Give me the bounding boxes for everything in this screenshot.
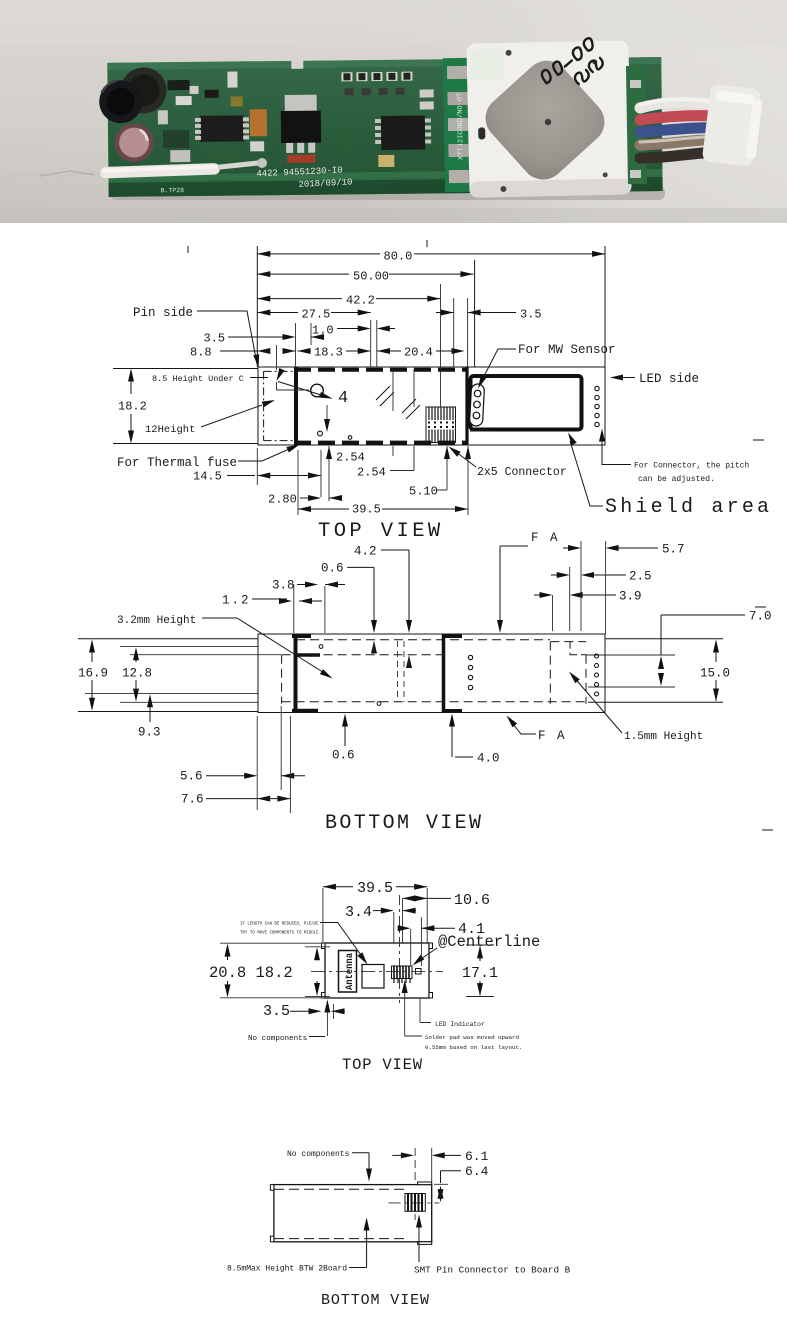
resistor row bbox=[341, 72, 412, 96]
svg-text:SMT Pin Connector to Board B: SMT Pin Connector to Board B bbox=[414, 1265, 571, 1276]
stray mark bbox=[753, 439, 764, 441]
svg-text:1.5mm Height: 1.5mm Height bbox=[624, 731, 703, 743]
svg-text:TRY TO MOVE COMPONENTS TO MIDD: TRY TO MOVE COMPONENTS TO MIDDLE. bbox=[240, 932, 321, 936]
svg-text:18.3: 18.3 bbox=[314, 346, 343, 360]
thermal fuse wire bbox=[0, 172, 110, 177]
small holes bbox=[318, 431, 323, 436]
svg-text:Pin side: Pin side bbox=[133, 306, 193, 320]
screw/holes bbox=[506, 50, 512, 56]
handwriting bbox=[536, 37, 607, 98]
svg-text:6.4: 6.4 bbox=[465, 1164, 489, 1179]
bold module edge vertical bbox=[465, 367, 468, 445]
PCB board bbox=[99, 53, 663, 197]
svg-text:F A: F A bbox=[531, 531, 560, 545]
connector dashed verticals bbox=[397, 641, 399, 702]
photo background bbox=[0, 0, 787, 223]
svg-text:12.8: 12.8 bbox=[122, 667, 152, 681]
capacitor pink bbox=[114, 123, 153, 162]
svg-text:0.55mm based on last layout.: 0.55mm based on last layout. bbox=[425, 1044, 522, 1051]
svg-text:10.6: 10.6 bbox=[454, 892, 490, 909]
svg-text:50.00: 50.00 bbox=[353, 270, 389, 284]
hole dia 4 label bbox=[311, 384, 324, 397]
pads near module bbox=[420, 89, 434, 109]
Antenna block bbox=[339, 951, 357, 993]
svg-text:Shield area: Shield area bbox=[605, 496, 772, 519]
svg-text:14.5: 14.5 bbox=[193, 470, 222, 484]
right ext verticals bbox=[552, 595, 554, 631]
shield area bold rect bbox=[471, 376, 582, 430]
capacitor black front bbox=[99, 80, 142, 123]
svg-text:42.2: 42.2 bbox=[346, 294, 375, 308]
svg-text:1.2: 1.2 bbox=[222, 594, 251, 608]
svg-text:F A: F A bbox=[538, 729, 567, 743]
left body lines bbox=[113, 369, 258, 444]
wires bbox=[640, 99, 720, 158]
svg-text:For Thermal fuse: For Thermal fuse bbox=[117, 456, 237, 470]
pin-side dash-dot box bbox=[264, 370, 294, 372]
connector white bbox=[702, 83, 764, 167]
svg-text:27.5: 27.5 bbox=[302, 308, 331, 322]
svg-text:For Connector, the pitch: For Connector, the pitch bbox=[634, 462, 749, 471]
square component bbox=[362, 965, 384, 989]
left ext lines bbox=[85, 647, 281, 703]
svg-text:LED Indicator: LED Indicator bbox=[435, 1021, 485, 1028]
svg-text:3.8: 3.8 bbox=[272, 579, 295, 593]
bold shield fence vertical + stubs bbox=[294, 634, 298, 713]
interior dashed outline bbox=[281, 655, 283, 704]
svg-text:0.6: 0.6 bbox=[332, 749, 355, 763]
svg-text:5.10: 5.10 bbox=[409, 485, 438, 499]
svg-text:BOTTOM VIEW: BOTTOM VIEW bbox=[325, 812, 483, 835]
svg-text:5.7: 5.7 bbox=[662, 543, 685, 557]
white sensor module bbox=[466, 36, 631, 197]
module board rect with corner tabs bbox=[325, 943, 429, 998]
right body lines bbox=[588, 639, 723, 703]
dim 3.5 right bbox=[436, 312, 516, 314]
2x5 connector block bbox=[426, 407, 456, 443]
left body lines bbox=[78, 639, 258, 712]
inner dashed lines bbox=[274, 1188, 409, 1190]
svg-text:LED side: LED side bbox=[639, 372, 699, 386]
svg-text:20.4: 20.4 bbox=[404, 346, 433, 360]
svg-text:7.6: 7.6 bbox=[181, 793, 204, 807]
LED indicator square bbox=[416, 969, 422, 975]
svg-text:6.1: 6.1 bbox=[465, 1149, 489, 1164]
IC right bbox=[381, 116, 425, 150]
PCB shadow bbox=[110, 186, 665, 200]
svg-text:8.8: 8.8 bbox=[190, 346, 212, 360]
board outline bbox=[258, 634, 605, 713]
svg-text:9.3: 9.3 bbox=[138, 726, 161, 740]
svg-text:2x5 Connector: 2x5 Connector bbox=[477, 466, 567, 479]
bold dashed bottom edge bbox=[294, 441, 467, 445]
svg-text:0.6: 0.6 bbox=[321, 562, 344, 576]
svg-text:Solder pad was moved upward: Solder pad was moved upward bbox=[425, 1034, 519, 1041]
SMT connector bbox=[392, 966, 413, 979]
board notch top bbox=[291, 57, 303, 69]
MW sensor capsule bbox=[469, 384, 484, 427]
svg-text:TOP VIEW: TOP VIEW bbox=[318, 520, 444, 543]
ext verticals bbox=[322, 888, 324, 943]
extension verticals top bbox=[256, 246, 258, 367]
break marks bbox=[376, 386, 394, 406]
dim 27.5 bbox=[257, 312, 370, 314]
TO-252 regulator bbox=[285, 95, 317, 113]
svg-text:No components: No components bbox=[287, 1150, 350, 1159]
bottom ext verticals bbox=[256, 716, 258, 810]
bold bar right bbox=[442, 634, 446, 713]
svg-text:XTTJ2ICOND/NO-OT: XTTJ2ICOND/NO-OT bbox=[456, 93, 465, 160]
svg-text:@Centerline: @Centerline bbox=[438, 933, 540, 951]
board outline (thin rect) bbox=[258, 367, 605, 445]
svg-text:No components: No components bbox=[248, 1035, 307, 1043]
small holes bbox=[319, 645, 323, 649]
svg-text:3.5: 3.5 bbox=[520, 308, 542, 322]
svg-text:20.8 18.2: 20.8 18.2 bbox=[209, 964, 293, 982]
dashed vertical centerline bbox=[399, 895, 401, 1003]
svg-text:3.2mm Height: 3.2mm Height bbox=[117, 615, 196, 627]
svg-text:4.2: 4.2 bbox=[354, 545, 377, 559]
bold dashed top edge bbox=[294, 368, 467, 372]
module board rect bbox=[274, 1185, 432, 1242]
dim 50.00 bbox=[257, 273, 473, 275]
small parts near caps bbox=[167, 80, 189, 90]
svg-text:can be adjusted.: can be adjusted. bbox=[638, 475, 715, 484]
SMT connector block bbox=[405, 1194, 425, 1212]
LED hole column bbox=[595, 386, 599, 426]
centerline cross bbox=[389, 1202, 440, 1204]
dim 39.5 bbox=[297, 450, 299, 515]
svg-text:39.5: 39.5 bbox=[357, 880, 393, 897]
svg-text:39.5: 39.5 bbox=[352, 503, 381, 517]
right short lines bbox=[586, 655, 675, 687]
svg-text:4: 4 bbox=[338, 389, 348, 408]
svg-text:IF LENGTH CAN BE REDUCED, PLEA: IF LENGTH CAN BE REDUCED, PLEASE bbox=[240, 923, 319, 927]
svg-text:7.0: 7.0 bbox=[749, 610, 772, 624]
svg-text:2.54: 2.54 bbox=[336, 451, 365, 465]
svg-text:3.9: 3.9 bbox=[619, 590, 642, 604]
svg-text:BOTTOM VIEW: BOTTOM VIEW bbox=[321, 1292, 430, 1309]
svg-text:5.6: 5.6 bbox=[180, 770, 203, 784]
centerline bbox=[311, 971, 443, 973]
svg-text:4.0: 4.0 bbox=[477, 752, 500, 766]
svg-text:3.4: 3.4 bbox=[345, 904, 372, 921]
green pad strip bbox=[443, 58, 473, 192]
capacitor black rear bbox=[120, 67, 166, 113]
svg-text:8.5 Height Under C: 8.5 Height Under C bbox=[152, 374, 244, 384]
interior thin verticals bbox=[392, 369, 394, 456]
svg-text:2.80: 2.80 bbox=[268, 493, 297, 507]
svg-text:TOP VIEW: TOP VIEW bbox=[342, 1056, 423, 1074]
svg-text:3.5: 3.5 bbox=[204, 332, 226, 346]
metal squircle plate bbox=[476, 52, 613, 189]
dim 42.2 bbox=[257, 298, 440, 300]
dim 80.0 bbox=[257, 253, 605, 255]
svg-text:For MW Sensor: For MW Sensor bbox=[518, 343, 616, 357]
bold shield fence vertical bbox=[294, 367, 298, 445]
svg-text:2.5: 2.5 bbox=[629, 570, 652, 584]
svg-text:17.1: 17.1 bbox=[462, 965, 498, 982]
SOIC-8 U1 bbox=[200, 115, 244, 141]
green tail bbox=[626, 66, 647, 184]
dim 2.54 #1 bbox=[328, 446, 330, 501]
svg-text:B.TP28: B.TP28 bbox=[161, 187, 185, 194]
svg-text:15.0: 15.0 bbox=[700, 667, 730, 681]
svg-text:8.5mMax Height BTW 2Board: 8.5mMax Height BTW 2Board bbox=[227, 1265, 347, 1274]
svg-text:2.54: 2.54 bbox=[357, 466, 386, 480]
svg-text:16.9: 16.9 bbox=[78, 667, 108, 681]
svg-text:18.2: 18.2 bbox=[118, 400, 147, 414]
svg-text:80.0: 80.0 bbox=[384, 250, 413, 264]
stray marks bbox=[755, 606, 766, 608]
svg-text:3.5: 3.5 bbox=[263, 1003, 290, 1020]
svg-text:12Height: 12Height bbox=[145, 424, 195, 436]
